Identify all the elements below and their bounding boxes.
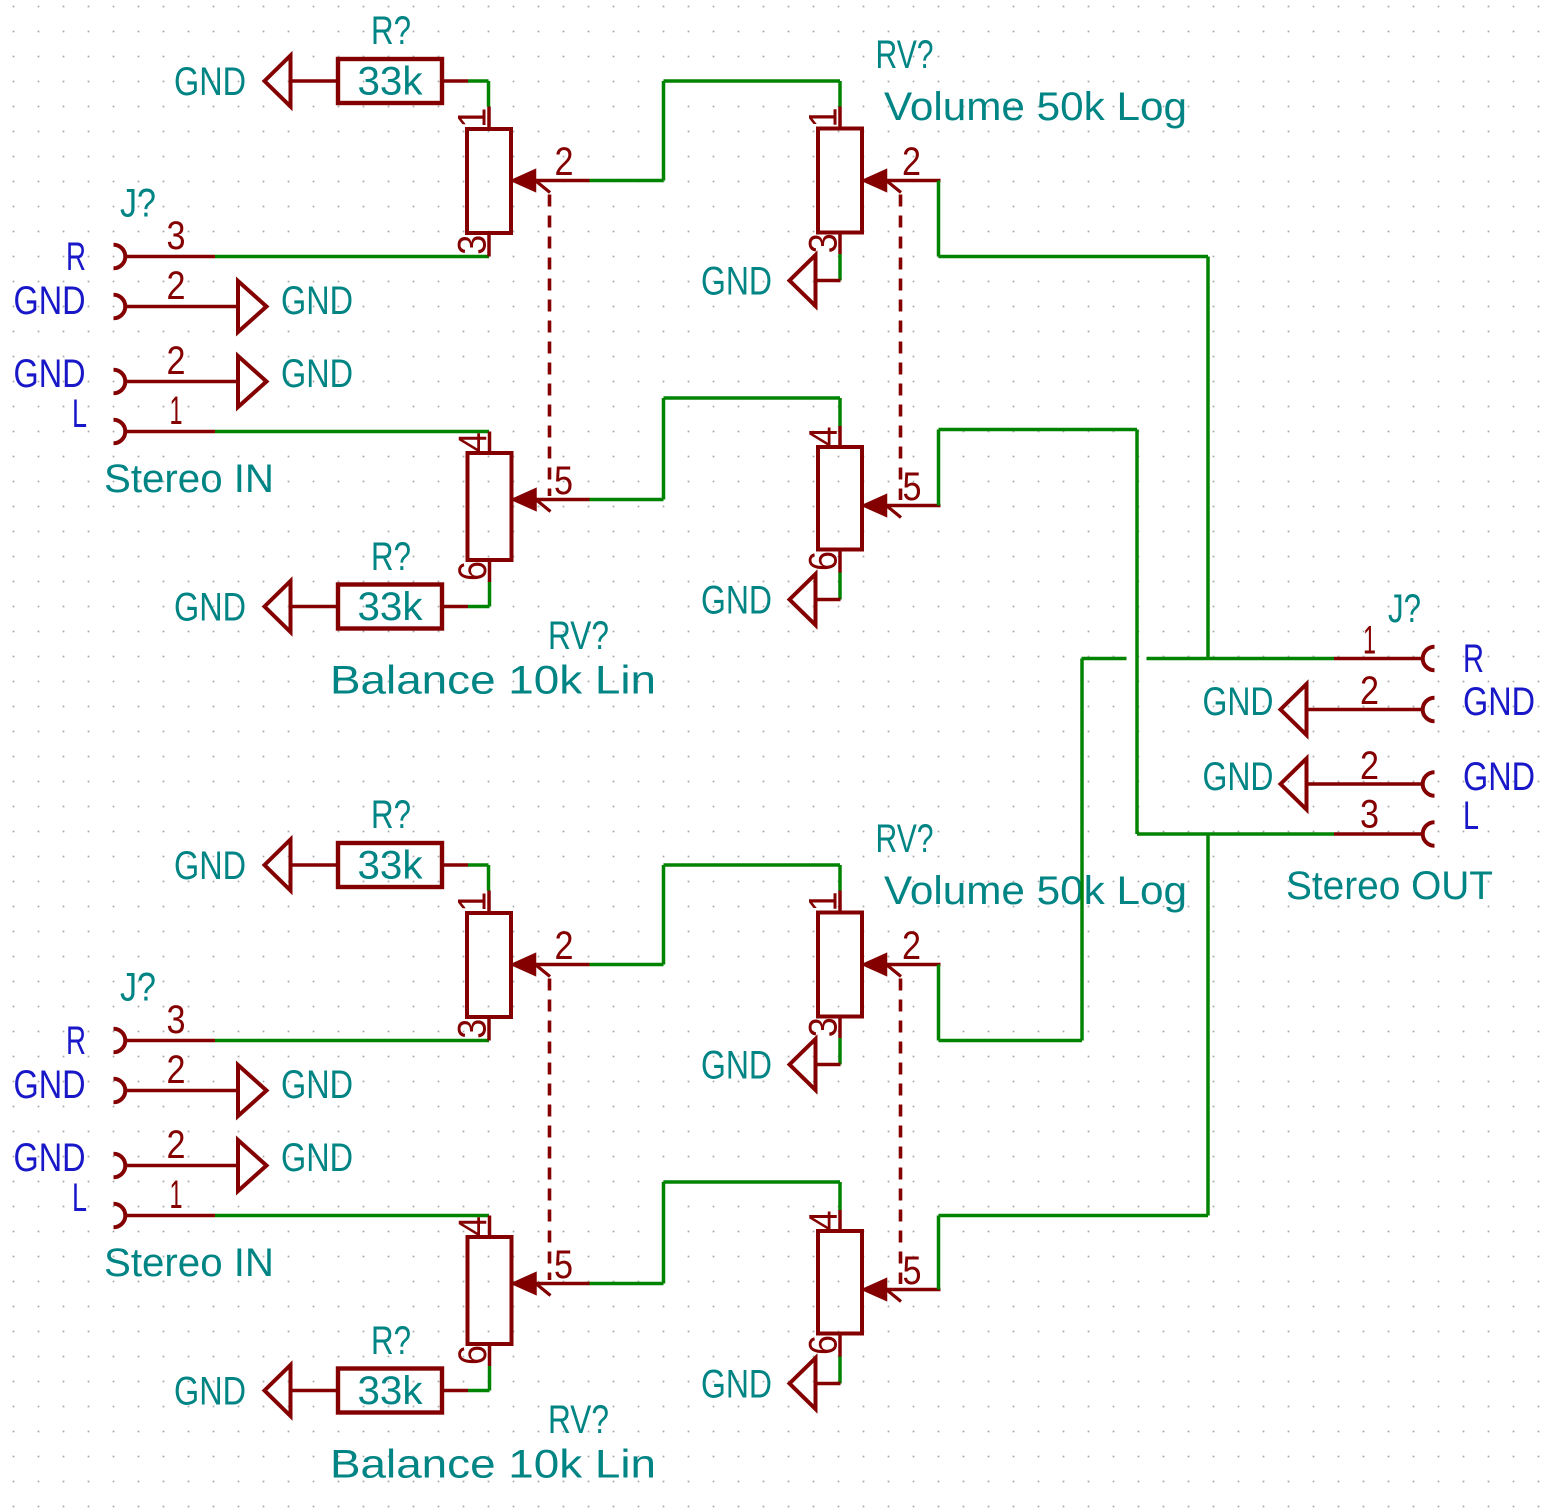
svg-text:2: 2 [555,140,574,184]
label GND (a) [701,260,772,304]
label Balance 10k Lin (b) [330,1443,656,1487]
pin number 2 out [1360,744,1379,788]
ground flag (b) [238,1065,267,1116]
svg-text:3: 3 [451,1019,495,1039]
pin number 3 (a) [167,214,186,258]
resistor R1 right pin (b) [442,863,468,867]
svg-text:2: 2 [902,140,921,184]
svg-text:R?: R? [371,793,411,837]
label GND (a) [281,279,353,323]
potentiometer RV balance gangA (a) [451,107,590,497]
svg-text:R?: R? [371,9,411,53]
svg-text:GND: GND [281,352,353,396]
label GND (a) [174,586,246,630]
wire volumeB out top [939,430,1138,835]
svg-text:GND: GND [1463,755,1535,799]
wire gnd-resistor (a) [291,79,339,83]
pin number 5 wiper (a) [903,465,922,509]
wire pot6-resistor (b) [468,1366,490,1391]
svg-text:GND: GND [14,1063,86,1107]
svg-text:6: 6 [802,1335,846,1355]
svg-text:1: 1 [802,108,846,128]
label GND (b) [701,1044,772,1088]
svg-text:2: 2 [555,924,574,968]
potentiometer RV balance gangA (b) [451,891,590,1281]
svg-text:Volume 50k Log: Volume 50k Log [884,869,1187,913]
potentiometer RV volume gangA (b) [802,891,941,1285]
svg-text:GND: GND [174,1370,246,1414]
svg-text:RV?: RV? [876,817,934,861]
svg-text:4: 4 [451,1216,495,1236]
svg-text:4: 4 [802,1211,846,1231]
label Stereo OUT [1286,864,1493,908]
label Stereo IN (b) [104,1241,274,1285]
label GND out 3 [1203,755,1274,799]
wire gnd-resistor (a) [291,605,339,609]
label GND (a) [174,60,246,104]
svg-text:GND: GND [174,60,246,104]
resistor R1 body 33k (b) [338,843,442,887]
svg-text:L: L [72,1176,87,1220]
svg-text:GND: GND [701,1363,772,1407]
svg-text:GND: GND [14,279,86,323]
svg-text:2: 2 [1360,669,1379,713]
ground flag volumeB (b) [790,1358,841,1409]
svg-text:3: 3 [802,1017,846,1037]
pin number 2 wiper (b) [902,924,921,968]
label J? (a) [120,182,156,226]
svg-text:3: 3 [1360,793,1379,837]
label GND (b) [281,1063,353,1107]
pin number 5 wiper (b) [903,1249,922,1293]
svg-text:2: 2 [167,339,186,383]
ground GND left (b) [265,840,291,891]
svg-text:1: 1 [170,1173,183,1217]
wire L input (b) [215,1214,489,1218]
svg-text:33k: 33k [358,585,424,629]
svg-text:5: 5 [903,1249,922,1293]
svg-text:RV?: RV? [548,614,609,658]
svg-text:3: 3 [167,998,186,1042]
svg-text:RV?: RV? [548,1398,609,1442]
wire volumeA out bottom [939,659,1083,1041]
wire balanceA-volumeA (a) [590,81,841,181]
svg-text:Stereo OUT: Stereo OUT [1286,864,1493,908]
pin number 2 (a) [167,339,186,383]
svg-text:2: 2 [1360,744,1379,788]
ground GND left (a) [265,56,291,107]
label GND (a) [701,579,772,623]
svg-text:J?: J? [1388,587,1421,631]
svg-text:Stereo IN: Stereo IN [104,457,274,501]
svg-text:GND: GND [14,352,86,396]
wire R input (a) [215,255,489,259]
wire out R bus [1082,657,1335,661]
svg-text:4: 4 [451,432,495,452]
svg-text:GND: GND [1203,755,1274,799]
svg-text:GND: GND [174,586,246,630]
svg-text:Stereo IN: Stereo IN [104,1241,274,1285]
pin number 2 (a) [167,264,186,308]
label GND (a) [281,352,353,396]
wire resistor-pot1 (b) [468,865,489,891]
pin name R (a) [66,235,86,279]
pin number 3 out [1360,793,1379,837]
pin name R (b) [66,1019,86,1063]
svg-text:1: 1 [451,108,495,128]
pin name L out [1463,794,1479,838]
svg-text:33k: 33k [358,844,424,888]
svg-text:1: 1 [170,389,183,433]
resistor R2 label (a) [371,535,411,579]
ground flag volumeA (a) [790,255,841,306]
pin number 2 wiper (b) [555,924,574,968]
svg-text:GND: GND [1463,680,1535,724]
svg-text:2: 2 [167,1048,186,1092]
label J? out [1388,587,1421,631]
wire resistor-pot1 (a) [468,81,489,107]
ground flag (a) [238,281,267,332]
resistor R1 value 33k (b) [358,844,424,888]
pin name GND (b) [14,1063,86,1107]
svg-text:GND: GND [1203,680,1274,724]
resistor R2 body 33k (a) [338,585,442,629]
pin name L (a) [72,392,87,436]
ground GND left (b) [265,1365,291,1416]
svg-text:R?: R? [371,535,411,579]
pin number 5 wiper (a) [554,459,573,503]
resistor R2 value 33k (b) [358,1369,424,1413]
resistor R1 body 33k (a) [338,59,442,103]
label Stereo IN (a) [104,457,274,501]
label RV balance (b) [548,1398,609,1442]
svg-text:3: 3 [451,235,495,255]
ground flag (a) [238,356,267,407]
ground flag volumeB (a) [790,574,841,625]
wire gnd-resistor (b) [291,863,339,867]
pin name GND out [1463,680,1535,724]
svg-text:5: 5 [554,1243,573,1287]
pin name GND (a) [14,352,86,396]
svg-text:33k: 33k [358,60,424,104]
wire volumeA pin3 gnd (a) [838,254,842,281]
wire balanceA-volumeA (b) [590,865,841,965]
ground flag out 3 [1281,759,1307,810]
svg-text:1: 1 [451,892,495,912]
svg-text:Balance 10k Lin: Balance 10k Lin [330,659,656,703]
svg-text:2: 2 [167,264,186,308]
label RV balance (a) [548,614,609,658]
svg-text:GND: GND [701,579,772,623]
label GND out 2 [1203,680,1274,724]
svg-text:6: 6 [802,551,846,571]
svg-text:Volume 50k Log: Volume 50k Log [884,85,1187,129]
pin number 2 wiper (a) [902,140,921,184]
svg-text:R: R [1463,637,1484,681]
svg-text:5: 5 [554,459,573,503]
pin number 2 (b) [167,1123,186,1167]
svg-text:2: 2 [167,1123,186,1167]
wire volumeB pin6 gnd (b) [838,1357,842,1384]
wire balanceB-volumeB (b) [590,1182,841,1284]
pin name GND (a) [14,279,86,323]
connector J? Stereo IN (a) [114,245,239,444]
pin number 1 (b) [170,1173,183,1217]
svg-text:3: 3 [167,214,186,258]
svg-text:GND: GND [281,279,353,323]
wire balanceB-volumeB (a) [590,398,841,500]
wire gnd-resistor (b) [291,1389,339,1393]
wire R input (b) [215,1039,489,1043]
label GND (b) [281,1136,353,1180]
pin number 2 wiper (a) [555,140,574,184]
resistor R1 right pin (a) [442,79,468,83]
svg-text:GND: GND [174,844,246,888]
resistor R2 right pin (b) [442,1389,468,1393]
svg-text:GND: GND [14,1136,86,1180]
label J? (b) [120,966,156,1010]
label GND (b) [174,844,246,888]
wire volumeB out bottom [939,834,1209,1290]
resistor R1 label (a) [371,9,411,53]
resistor R2 right pin (a) [442,605,468,609]
pin number 1 (a) [170,389,183,433]
ground flag volumeA (b) [790,1039,841,1090]
ground flag out 2 [1281,684,1307,735]
svg-text:33k: 33k [358,1369,424,1413]
pin number 2 (b) [167,1048,186,1092]
svg-text:6: 6 [451,1345,495,1365]
svg-text:L: L [72,392,87,436]
label RV volume (b) [876,817,934,861]
svg-text:6: 6 [451,561,495,581]
label Volume 50k Log (a) [884,85,1187,129]
svg-text:2: 2 [902,924,921,968]
wire pot6-resistor (a) [468,582,490,607]
label GND (b) [701,1363,772,1407]
svg-text:J?: J? [120,966,156,1010]
resistor R1 label (b) [371,793,411,837]
wire out L bus [1137,832,1334,836]
pin number 5 wiper (b) [554,1243,573,1287]
connector J? Stereo OUT [1307,647,1435,846]
svg-text:4: 4 [802,427,846,447]
svg-text:R: R [66,1019,86,1063]
pin number 1 out [1363,619,1376,663]
label Balance 10k Lin (a) [330,659,656,703]
wire volumeA pin3 gnd (b) [838,1038,842,1065]
label GND (b) [174,1370,246,1414]
wire L input (a) [215,430,489,434]
svg-text:GND: GND [281,1063,353,1107]
wire volumeB pin6 gnd (a) [838,573,842,600]
wire volumeA out top [939,181,1209,659]
svg-text:L: L [1463,794,1479,838]
svg-text:GND: GND [281,1136,353,1180]
pin name GND (b) [14,1136,86,1180]
svg-text:1: 1 [1363,619,1376,663]
pin name R out [1463,637,1484,681]
potentiometer RV balance gangB (a) [451,432,590,583]
resistor R2 label (b) [371,1319,411,1363]
svg-text:5: 5 [903,465,922,509]
svg-text:1: 1 [802,892,846,912]
potentiometer RV balance gangB (b) [451,1216,590,1367]
potentiometer RV volume gangA (a) [802,107,941,501]
pin number 3 (b) [167,998,186,1042]
resistor R2 value 33k (a) [358,585,424,629]
ground flag (b) [238,1140,267,1191]
ground GND left (a) [265,581,291,632]
svg-text:J?: J? [120,182,156,226]
svg-text:3: 3 [802,233,846,253]
connector J? Stereo IN (b) [114,1029,239,1228]
pin name L (b) [72,1176,87,1220]
potentiometer RV volume gangB (a) [802,426,941,573]
resistor R2 body 33k (b) [338,1369,442,1413]
svg-text:RV?: RV? [876,33,934,77]
label Volume 50k Log (b) [884,869,1187,913]
svg-text:R: R [66,235,86,279]
svg-text:Balance 10k Lin: Balance 10k Lin [330,1443,656,1487]
label RV volume (a) [876,33,934,77]
svg-text:GND: GND [701,1044,772,1088]
pin name GND out [1463,755,1535,799]
pin number 2 out [1360,669,1379,713]
potentiometer RV volume gangB (b) [802,1210,941,1357]
svg-text:R?: R? [371,1319,411,1363]
svg-text:GND: GND [701,260,772,304]
resistor R1 value 33k (a) [358,60,424,104]
